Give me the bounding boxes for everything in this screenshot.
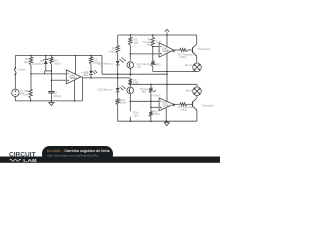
svg-text:10kΩ: 10kΩ xyxy=(153,112,161,116)
svg-text:bu-sckfe :: Carrinho seguidor: bu-sckfe :: Carrinho seguidor de linha xyxy=(47,149,110,153)
svg-text:TL081: TL081 xyxy=(162,104,170,108)
svg-text:1kΩ: 1kΩ xyxy=(133,113,139,117)
svg-text:10kΩ: 10kΩ xyxy=(120,100,128,104)
svg-text:Motor: Motor xyxy=(185,63,192,67)
svg-text:+7.49mV: +7.49mV xyxy=(79,72,89,75)
svg-text:TL081: TL081 xyxy=(70,76,78,80)
svg-text:Motor: Motor xyxy=(186,89,193,93)
svg-text:1N4734A: 1N4734A xyxy=(32,62,44,66)
svg-text:LED Branco: LED Branco xyxy=(97,88,113,92)
svg-text:Transistor: Transistor xyxy=(198,47,211,51)
svg-text:1kΩ: 1kΩ xyxy=(23,92,29,96)
svg-text:Chave: Chave xyxy=(18,67,27,71)
svg-text:1kΩ: 1kΩ xyxy=(133,81,139,85)
svg-text:10kΩ: 10kΩ xyxy=(180,55,188,59)
svg-text:1kΩ: 1kΩ xyxy=(134,41,140,45)
svg-text:10kΩ: 10kΩ xyxy=(180,108,188,112)
svg-text:1kΩ: 1kΩ xyxy=(23,60,29,64)
svg-text:1kΩ: 1kΩ xyxy=(156,63,161,66)
svg-text:LAB: LAB xyxy=(23,158,38,163)
svg-text:1kΩ: 1kΩ xyxy=(156,39,162,43)
svg-text:LED Branco: LED Branco xyxy=(97,61,113,65)
svg-text:1kΩ: 1kΩ xyxy=(137,66,142,69)
svg-text:+4.58mV: +4.58mV xyxy=(151,95,161,98)
svg-text:http://circuitlab.com/cbq4vqw0: http://circuitlab.com/cbq4vqw0xp34p xyxy=(47,154,98,158)
svg-text:100µF: 100µF xyxy=(53,94,61,98)
svg-text:10kΩ: 10kΩ xyxy=(54,62,62,66)
svg-text:10kΩ: 10kΩ xyxy=(109,50,117,54)
svg-text:1kΩ: 1kΩ xyxy=(146,43,151,46)
svg-text:1kΩ: 1kΩ xyxy=(141,89,147,93)
svg-text:Transistor: Transistor xyxy=(201,103,214,107)
svg-text:TL081: TL081 xyxy=(162,49,170,53)
